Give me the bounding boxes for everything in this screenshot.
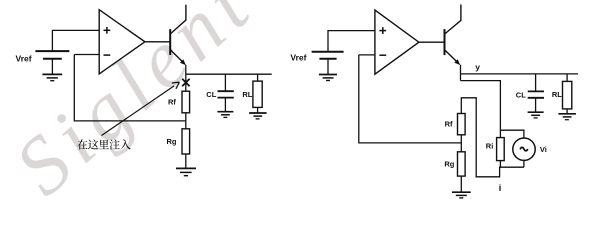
- wire: Rf to Rg: [185, 113, 187, 129]
- wire: CL to ground: [224, 98, 226, 112]
- resistor RL (right): [563, 81, 572, 109]
- wire: source bottom: [523, 160, 525, 167]
- wire: output rail left: [186, 73, 272, 75]
- resistor Rf: [182, 91, 190, 113]
- svg-text:RL: RL: [242, 90, 252, 99]
- wire: op-amp - input: [74, 54, 99, 56]
- svg-text:CL: CL: [206, 90, 216, 99]
- wire: feedback to Rf/Rg node: [74, 55, 186, 121]
- svg-text:Vref: Vref: [290, 53, 306, 63]
- resistor Ri: [497, 138, 505, 161]
- svg-text:Rg: Rg: [444, 159, 454, 168]
- wire: op-amp output to Q1 base: [145, 41, 170, 43]
- resistor Rg (right): [458, 152, 466, 176]
- op-amp U2: [375, 10, 419, 74]
- op-amp U1 plus sign: [104, 27, 111, 34]
- transistor Q1 base bar: [169, 29, 171, 55]
- wire: op-amp + input to battery: [328, 31, 375, 52]
- ground (RL): [249, 113, 267, 119]
- capacitor CL wire top: [224, 74, 226, 91]
- wire: Q1 emitter down to Rf: [185, 65, 187, 91]
- wire: Rg to ground: [185, 154, 187, 168]
- battery B1 long plate: [35, 50, 69, 52]
- injection arrow: [102, 86, 175, 136]
- wire: sense tap to Ri: [461, 81, 501, 138]
- label char 这: [88, 139, 98, 149]
- op-amp U2 minus sign: [379, 54, 386, 56]
- transistor Q2 emitter: [445, 50, 457, 62]
- transistor Q2 collector: [445, 5, 461, 35]
- transistor Q1 collector: [170, 5, 186, 34]
- svg-text:Rf: Rf: [168, 97, 176, 106]
- svg-text:i: i: [499, 183, 502, 193]
- label char 里: [99, 140, 109, 150]
- svg-text:Rf: Rf: [445, 119, 453, 128]
- label 在这里注入: [77, 139, 130, 149]
- resistor Rg: [182, 129, 190, 154]
- transistor Q1 emitter: [170, 50, 182, 62]
- wire: battery to ground: [51, 59, 53, 74]
- wire: battery to ground: [327, 59, 329, 75]
- wire: rail to RL (right): [566, 74, 568, 82]
- wire: op-amp - input: [359, 54, 375, 56]
- wire: rail to RL: [257, 74, 259, 81]
- capacitor CL (right) wire top: [535, 74, 537, 91]
- wire: op-amp + input to battery: [52, 30, 99, 51]
- svg-text:Ri: Ri: [486, 141, 494, 150]
- svg-text:CL: CL: [516, 91, 526, 100]
- ground (battery B2): [319, 75, 337, 81]
- wire: RL to ground: [257, 107, 259, 112]
- transistor Q2 base bar: [444, 29, 446, 55]
- capacitor CL plates: [218, 91, 234, 97]
- op-amp U1: [99, 10, 145, 74]
- svg-text:y: y: [475, 62, 480, 72]
- wire: Rg to ground (right): [460, 176, 462, 192]
- source Vi sine: [520, 147, 528, 150]
- battery B2 short plate: [319, 58, 336, 60]
- wire: Q2 emitter node down: [460, 65, 462, 81]
- op-amp U1 minus sign: [104, 54, 111, 56]
- wire: bottom node: [461, 98, 524, 177]
- resistor Rf (right): [458, 114, 466, 135]
- svg-text:Vi: Vi: [540, 145, 547, 154]
- resistor RL: [253, 81, 262, 107]
- ground (CL right): [528, 112, 544, 118]
- ground (CL): [217, 112, 233, 118]
- wire: Rf to Rg (right): [460, 135, 462, 152]
- ground (RL right): [558, 114, 576, 120]
- wire: RL to ground (right): [566, 109, 568, 114]
- wire: Ri node to source top: [500, 130, 524, 138]
- capacitor CL (right) plates: [528, 91, 544, 97]
- ground (battery B1): [42, 74, 62, 80]
- label char 注: [110, 139, 120, 149]
- ground (Rg): [176, 168, 196, 175]
- wire: feedback to Rf/Rg node: [359, 55, 462, 143]
- source Vi circle: [513, 138, 535, 160]
- wire: Ri bottom: [499, 161, 501, 168]
- wire: CL to ground (right): [535, 98, 537, 112]
- battery B1 short plate: [43, 58, 62, 60]
- label char 入: [120, 139, 130, 149]
- wire: op-amp output to Q2 base: [419, 41, 445, 43]
- node X injection point: [182, 79, 189, 86]
- wire: output rail right: [461, 73, 579, 75]
- svg-text:RL: RL: [552, 90, 562, 99]
- ground (Rg right): [452, 192, 471, 198]
- label char 在: [77, 139, 87, 149]
- svg-text:Rg: Rg: [167, 137, 177, 146]
- svg-text:Vref: Vref: [16, 54, 32, 64]
- battery B2 long plate: [312, 51, 344, 53]
- op-amp U2 plus sign: [379, 27, 386, 34]
